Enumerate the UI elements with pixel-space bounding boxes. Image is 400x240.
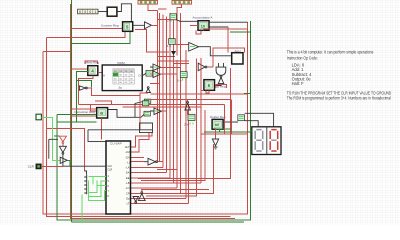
wire (231, 100, 233, 135)
svg-text:CLR: CLR (28, 164, 35, 168)
wire (227, 27, 229, 53)
svg-text:3q: 3q (118, 86, 122, 90)
wire (151, 93, 248, 95)
wire (216, 128, 232, 130)
ROM table (113, 69, 134, 84)
wire (157, 57, 189, 61)
clr pin (36, 164, 41, 169)
svg-text:Accumulator A: Accumulator A (193, 16, 214, 20)
acc bottom loop (196, 30, 201, 34)
wire (188, 105, 190, 204)
wire (72, 221, 244, 223)
wire (95, 101, 112, 105)
svg-text:CU-SAP: CU-SAP (110, 141, 122, 145)
svg-text:0: 0 (89, 10, 91, 14)
wire (250, 130, 251, 132)
wire (79, 88, 80, 105)
wire (208, 90, 210, 94)
buffer right (60, 157, 67, 163)
probe display 1 (138, 1, 158, 5)
wire (77, 80, 92, 87)
buffer d (150, 108, 162, 115)
wire (131, 192, 181, 194)
svg-text:-LB: -LB (125, 181, 129, 185)
splitter D (238, 115, 245, 121)
svg-text:0: 0 (79, 10, 81, 14)
wire (71, 4, 235, 219)
wire (161, 73, 178, 75)
instr bus wire (108, 110, 141, 118)
wire (79, 73, 103, 89)
svg-text:b0: b0 (215, 123, 219, 127)
svg-text:-LM: -LM (125, 150, 129, 154)
wire (141, 189, 143, 191)
wire (244, 92, 250, 94)
wire (150, 83, 160, 85)
triangle up w/ bubble (146, 89, 151, 93)
wire (190, 122, 193, 124)
output reg (212, 119, 223, 129)
wire (175, 44, 189, 46)
left 7seg (gray) (255, 130, 263, 151)
wire (131, 161, 145, 163)
ground 2 (215, 129, 217, 138)
wire (131, 156, 145, 158)
input pins 0 0 0 1 (78, 9, 99, 14)
buffer w/ bubble right (198, 63, 205, 70)
rom out splitter (142, 73, 146, 75)
wire (117, 4, 131, 22)
wire (57, 114, 96, 116)
wire (63, 154, 106, 166)
probe display 2 (172, 1, 192, 5)
wire (176, 60, 178, 188)
wire (81, 194, 83, 222)
wire (162, 110, 167, 112)
svg-text:1: 1 (94, 10, 96, 14)
accumulator reg (198, 21, 209, 31)
wire (185, 50, 187, 199)
and inputs (219, 63, 224, 67)
wire (138, 68, 231, 178)
splitter c (143, 101, 149, 106)
control unit IC (106, 141, 131, 214)
black bus box (140, 123, 153, 133)
ground 1 (173, 45, 175, 51)
wire (141, 110, 205, 181)
wire (71, 28, 123, 30)
wire (150, 99, 231, 101)
wire (162, 15, 164, 168)
wire (235, 121, 238, 123)
buffer gate (133, 22, 152, 29)
buffer up w/ bubble (138, 194, 145, 201)
wire (141, 188, 209, 190)
svg-text:-LO: -LO (125, 186, 129, 190)
wire (57, 72, 96, 123)
ground 1 glyph (171, 51, 176, 55)
wire (41, 165, 63, 167)
wire (138, 182, 201, 184)
wire (54, 135, 59, 137)
wire (204, 129, 250, 132)
svg-text:ROM: ROM (118, 61, 126, 65)
wire (166, 17, 168, 173)
wire (187, 100, 189, 115)
splitter G (180, 72, 187, 78)
svg-text:B Reg: B Reg (217, 85, 226, 89)
wire (47, 129, 85, 171)
wire (201, 90, 209, 93)
and gate down (216, 67, 226, 75)
instruction reg (97, 108, 108, 118)
wire (47, 31, 125, 37)
wire (245, 121, 259, 127)
wire (177, 20, 199, 22)
wire (199, 47, 232, 56)
wire (87, 87, 91, 89)
wire (172, 19, 174, 184)
svg-text:Instruction Op Code:: Instruction Op Code: (287, 55, 318, 60)
wire (180, 13, 182, 193)
wire (71, 108, 97, 110)
wire (131, 203, 189, 205)
splitter trunk (84, 171, 86, 175)
wire (157, 161, 163, 163)
wire (89, 185, 106, 193)
wire (49, 139, 58, 159)
splitter fan (84, 175, 87, 195)
wire (93, 177, 97, 189)
wire (177, 4, 182, 55)
display box (252, 127, 281, 155)
wire (89, 176, 106, 178)
wire (131, 177, 170, 179)
wire (215, 84, 222, 86)
wire (157, 168, 177, 170)
svg-text:-CN: -CN (125, 155, 130, 159)
IC left pin labels (108, 165, 113, 198)
wire (131, 172, 167, 174)
wire (43, 22, 248, 214)
not gate down small (133, 197, 139, 202)
bus splitter high (135, 101, 144, 117)
not gate down (red) (59, 136, 66, 142)
not gate down (black) (59, 146, 66, 152)
wire (152, 24, 158, 26)
alu red loop (213, 48, 244, 67)
wire (148, 5, 157, 11)
svg-text:CP: CP (126, 191, 130, 195)
svg-text:-LA: -LA (125, 166, 129, 170)
red label loop (85, 61, 97, 64)
wire (79, 104, 225, 106)
wire (190, 25, 198, 27)
wire (67, 160, 70, 166)
not gate (144, 158, 156, 165)
wire (100, 118, 102, 140)
wire (123, 106, 202, 108)
wire (183, 78, 186, 80)
svg-text:Ep: Ep (126, 197, 130, 201)
wire (41, 117, 60, 160)
bus splitter low (141, 114, 145, 118)
splitter A (170, 14, 177, 20)
wire (204, 29, 248, 30)
svg-text:2-b: 2-b (184, 123, 189, 127)
buffer a (150, 64, 161, 71)
wire (47, 37, 231, 216)
wire (71, 115, 97, 117)
clk pin (36, 114, 41, 120)
svg-text:HLT: HLT (125, 145, 130, 149)
wire (200, 58, 202, 183)
svg-text:Halt: F: Halt: F (292, 81, 305, 86)
svg-text:LT: LT (127, 202, 130, 206)
svg-text:The ROM is programmed to perfo: The ROM is programmed to perform 3+4. Nu… (287, 96, 391, 101)
mux box (107, 7, 117, 16)
svg-text:10: 10 (201, 24, 205, 28)
wire (91, 105, 97, 111)
alu buffer (189, 42, 199, 51)
svg-text:-LI: -LI (126, 160, 129, 164)
wire (173, 63, 189, 65)
svg-text:Instruction Reg: Instruction Reg (74, 110, 95, 114)
wire (201, 133, 248, 135)
right 7seg (red) (270, 130, 278, 151)
wire (135, 30, 169, 52)
wire (62, 144, 64, 147)
wire (156, 10, 158, 162)
wire (43, 51, 71, 53)
wire (89, 181, 106, 197)
svg-text:2-b: 2-b (177, 79, 182, 83)
wire (150, 73, 153, 75)
wire (245, 113, 274, 127)
wire (131, 182, 174, 184)
wire (223, 121, 238, 123)
triangle up w/ bubble (218, 77, 224, 83)
splitter B (169, 39, 176, 45)
wire (209, 26, 228, 28)
wire (158, 9, 170, 20)
wire (91, 88, 148, 96)
wire (169, 13, 171, 178)
wire (88, 130, 152, 142)
splitter I (188, 114, 195, 120)
svg-text:This is a 4 bit computer. It c: This is a 4 bit computer. It can perform… (287, 49, 374, 54)
triangle up w/ bubble H (185, 103, 191, 110)
wire (131, 198, 186, 200)
inverter (80, 86, 86, 90)
B reg label loop (216, 85, 227, 89)
wire (131, 133, 153, 147)
wire (223, 105, 225, 134)
wire (57, 21, 250, 220)
svg-text:Mem Reg: Mem Reg (86, 60, 100, 64)
svg-text:Counter Reg: Counter Reg (101, 23, 119, 27)
wire (209, 21, 248, 23)
svg-text:EE: EE (126, 176, 130, 180)
wire (72, 0, 130, 222)
wire (98, 11, 107, 13)
mem reg (88, 66, 98, 76)
svg-text:Output Reg: Output Reg (210, 115, 226, 119)
counter reg (123, 22, 133, 32)
wire (146, 58, 197, 196)
svg-text:0: 0 (84, 10, 86, 14)
ground 2 symbol (212, 139, 218, 149)
wire (161, 66, 181, 68)
wire (131, 187, 178, 189)
wire (230, 31, 250, 33)
wire (131, 133, 150, 152)
wire (131, 167, 164, 169)
wire (207, 66, 213, 68)
IC right pin labels (125, 145, 130, 206)
wire (89, 189, 106, 201)
buffer b (150, 71, 161, 78)
ROM box (102, 65, 142, 91)
svg-text:EA: EA (126, 171, 130, 175)
wire (159, 13, 161, 162)
svg-text:CLR: CLR (108, 168, 113, 171)
wire (139, 96, 141, 131)
ALU box (232, 53, 243, 64)
wire (71, 68, 88, 70)
svg-text:B: B (100, 111, 103, 116)
B reg (204, 80, 215, 91)
wire (146, 144, 213, 193)
